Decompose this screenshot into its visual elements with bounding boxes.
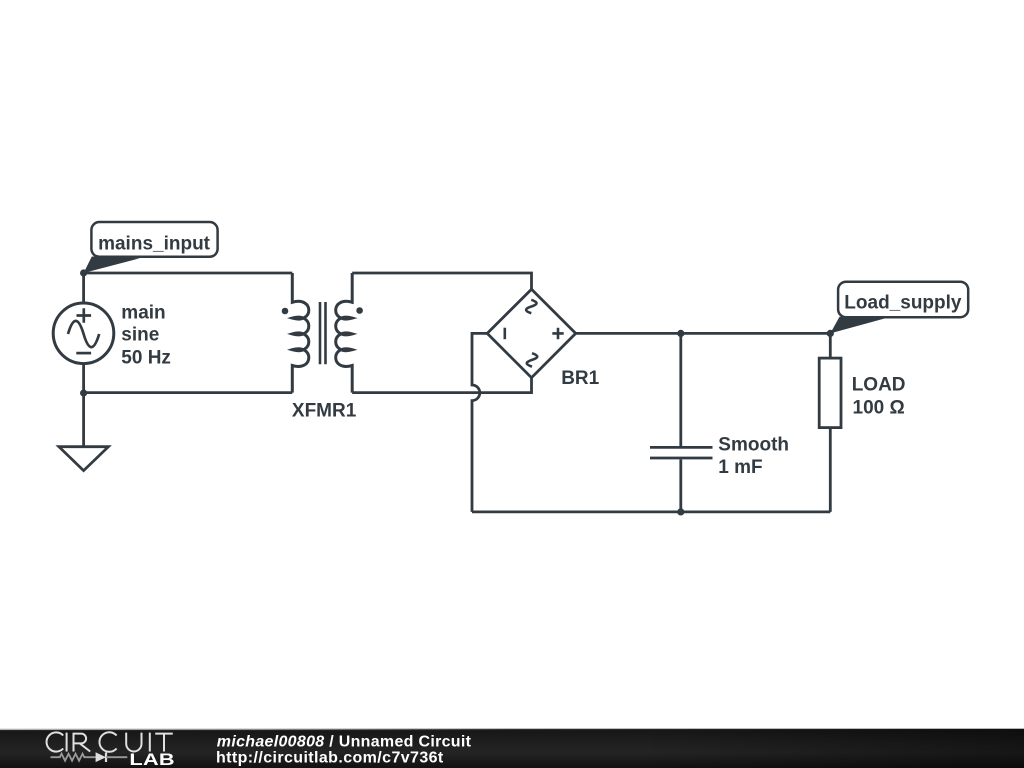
svg-text:http://circuitlab.com/c7v736t: http://circuitlab.com/c7v736t [216, 750, 444, 767]
svg-text:1 mF: 1 mF [718, 457, 762, 478]
svg-text:LOAD: LOAD [852, 374, 906, 395]
svg-text:main: main [121, 303, 165, 324]
svg-text:50 Hz: 50 Hz [121, 348, 171, 369]
svg-text:XFMR1: XFMR1 [292, 401, 357, 422]
svg-text:Load_supply: Load_supply [844, 292, 962, 313]
svg-text:BR1: BR1 [561, 368, 599, 389]
svg-text:sine: sine [121, 325, 159, 346]
svg-text:Smooth: Smooth [718, 435, 789, 456]
svg-text:LAB: LAB [129, 750, 174, 768]
svg-text:100 Ω: 100 Ω [853, 398, 905, 419]
svg-text:mains_input: mains_input [98, 233, 211, 254]
svg-text:michael00808 / Unnamed Circuit: michael00808 / Unnamed Circuit [217, 733, 472, 750]
